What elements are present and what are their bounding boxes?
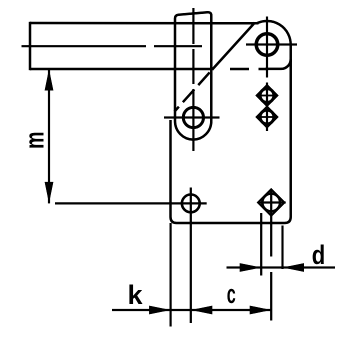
small hole upper: diamond bbox=[257, 85, 278, 106]
d arrow right (left side) bbox=[240, 263, 262, 272]
svg-text:m: m bbox=[20, 131, 50, 149]
diagonal plate top edge (solid) bbox=[212, 23, 255, 70]
arm centre line (dash-dot) bbox=[22, 45, 203, 47]
m arrow up (at bar underside) bbox=[45, 69, 54, 91]
bottom-right mounting hole bbox=[262, 194, 280, 212]
small hole upper: circle bbox=[260, 89, 274, 103]
bottom-right hole vertical centre line / extension for c bbox=[270, 189, 272, 321]
bottom-left hole vertical centre line / extension for k,c bbox=[190, 188, 192, 324]
clamp arm bar: top edge bbox=[30, 22, 259, 25]
clamp arm bar: hidden bottom edge (dashed behind plate) bbox=[222, 68, 267, 71]
diagonal plate top edge hidden behind strip (dashed) bbox=[175, 70, 213, 112]
strip centre line (vertical dash-dot) bbox=[192, 8, 194, 151]
main pivot hole ring bbox=[256, 34, 278, 56]
plate right edge bbox=[289, 45, 292, 218]
small hole lower: crosshair horizontal bbox=[257, 116, 278, 118]
d dimension right shaft bbox=[283, 266, 336, 268]
plate left edge extension line (k) bbox=[170, 223, 172, 327]
d extension line right bbox=[281, 226, 283, 270]
plate bottom edge with rounded corners bbox=[171, 217, 291, 223]
bent tab: horizontal ledge and corner radius to right edge bbox=[266, 59, 291, 69]
plate top-right rounded corner arc bbox=[257, 21, 291, 45]
svg-text:k: k bbox=[128, 280, 144, 310]
bottom-left mounting hole bbox=[182, 195, 200, 213]
pivot hole / small holes vertical centre line bbox=[266, 17, 268, 132]
d dimension joining segment bbox=[261, 266, 282, 268]
d extension line left (hole edge) bbox=[260, 213, 262, 276]
small hole lower: diamond bbox=[257, 107, 278, 128]
bottom-right hole crosshair horizontal bbox=[259, 201, 286, 203]
d arrow left (right side) bbox=[283, 263, 305, 272]
d dimension left shaft bbox=[227, 266, 262, 268]
pivot bracket strip: U-shaped bottom arc bbox=[175, 121, 211, 140]
small hole lower: circle bbox=[260, 110, 274, 124]
bottom-right hole diamond bbox=[258, 189, 284, 215]
c dimension line bbox=[191, 309, 271, 311]
k-c joining segment bbox=[171, 309, 191, 311]
m dimension vertical line bbox=[48, 69, 50, 203]
clamp arm bar: left end edge bbox=[29, 22, 32, 70]
svg-text:c: c bbox=[227, 279, 236, 309]
strip pivot hole bbox=[183, 107, 203, 127]
c arrow left (at left hole centre line) bbox=[191, 306, 213, 315]
strip hole crosshair horizontal bbox=[164, 116, 220, 118]
c arrow right (at right hole centre line) bbox=[250, 306, 272, 315]
m dimension extension line (hole centre to left) bbox=[55, 202, 207, 204]
k arrow right bbox=[149, 306, 171, 315]
svg-text:d: d bbox=[312, 240, 326, 270]
clamp arm bar: bottom edge (visible part) bbox=[30, 68, 214, 71]
k dimension shaft bbox=[112, 309, 171, 311]
pivot hole crosshair horizontal bbox=[246, 43, 297, 45]
plate left edge bbox=[169, 120, 172, 217]
m arrow down (at hole centre line) bbox=[45, 182, 54, 204]
small hole upper: crosshair horizontal bbox=[257, 95, 278, 97]
pivot bracket strip: outline with rounded top bbox=[175, 12, 211, 121]
